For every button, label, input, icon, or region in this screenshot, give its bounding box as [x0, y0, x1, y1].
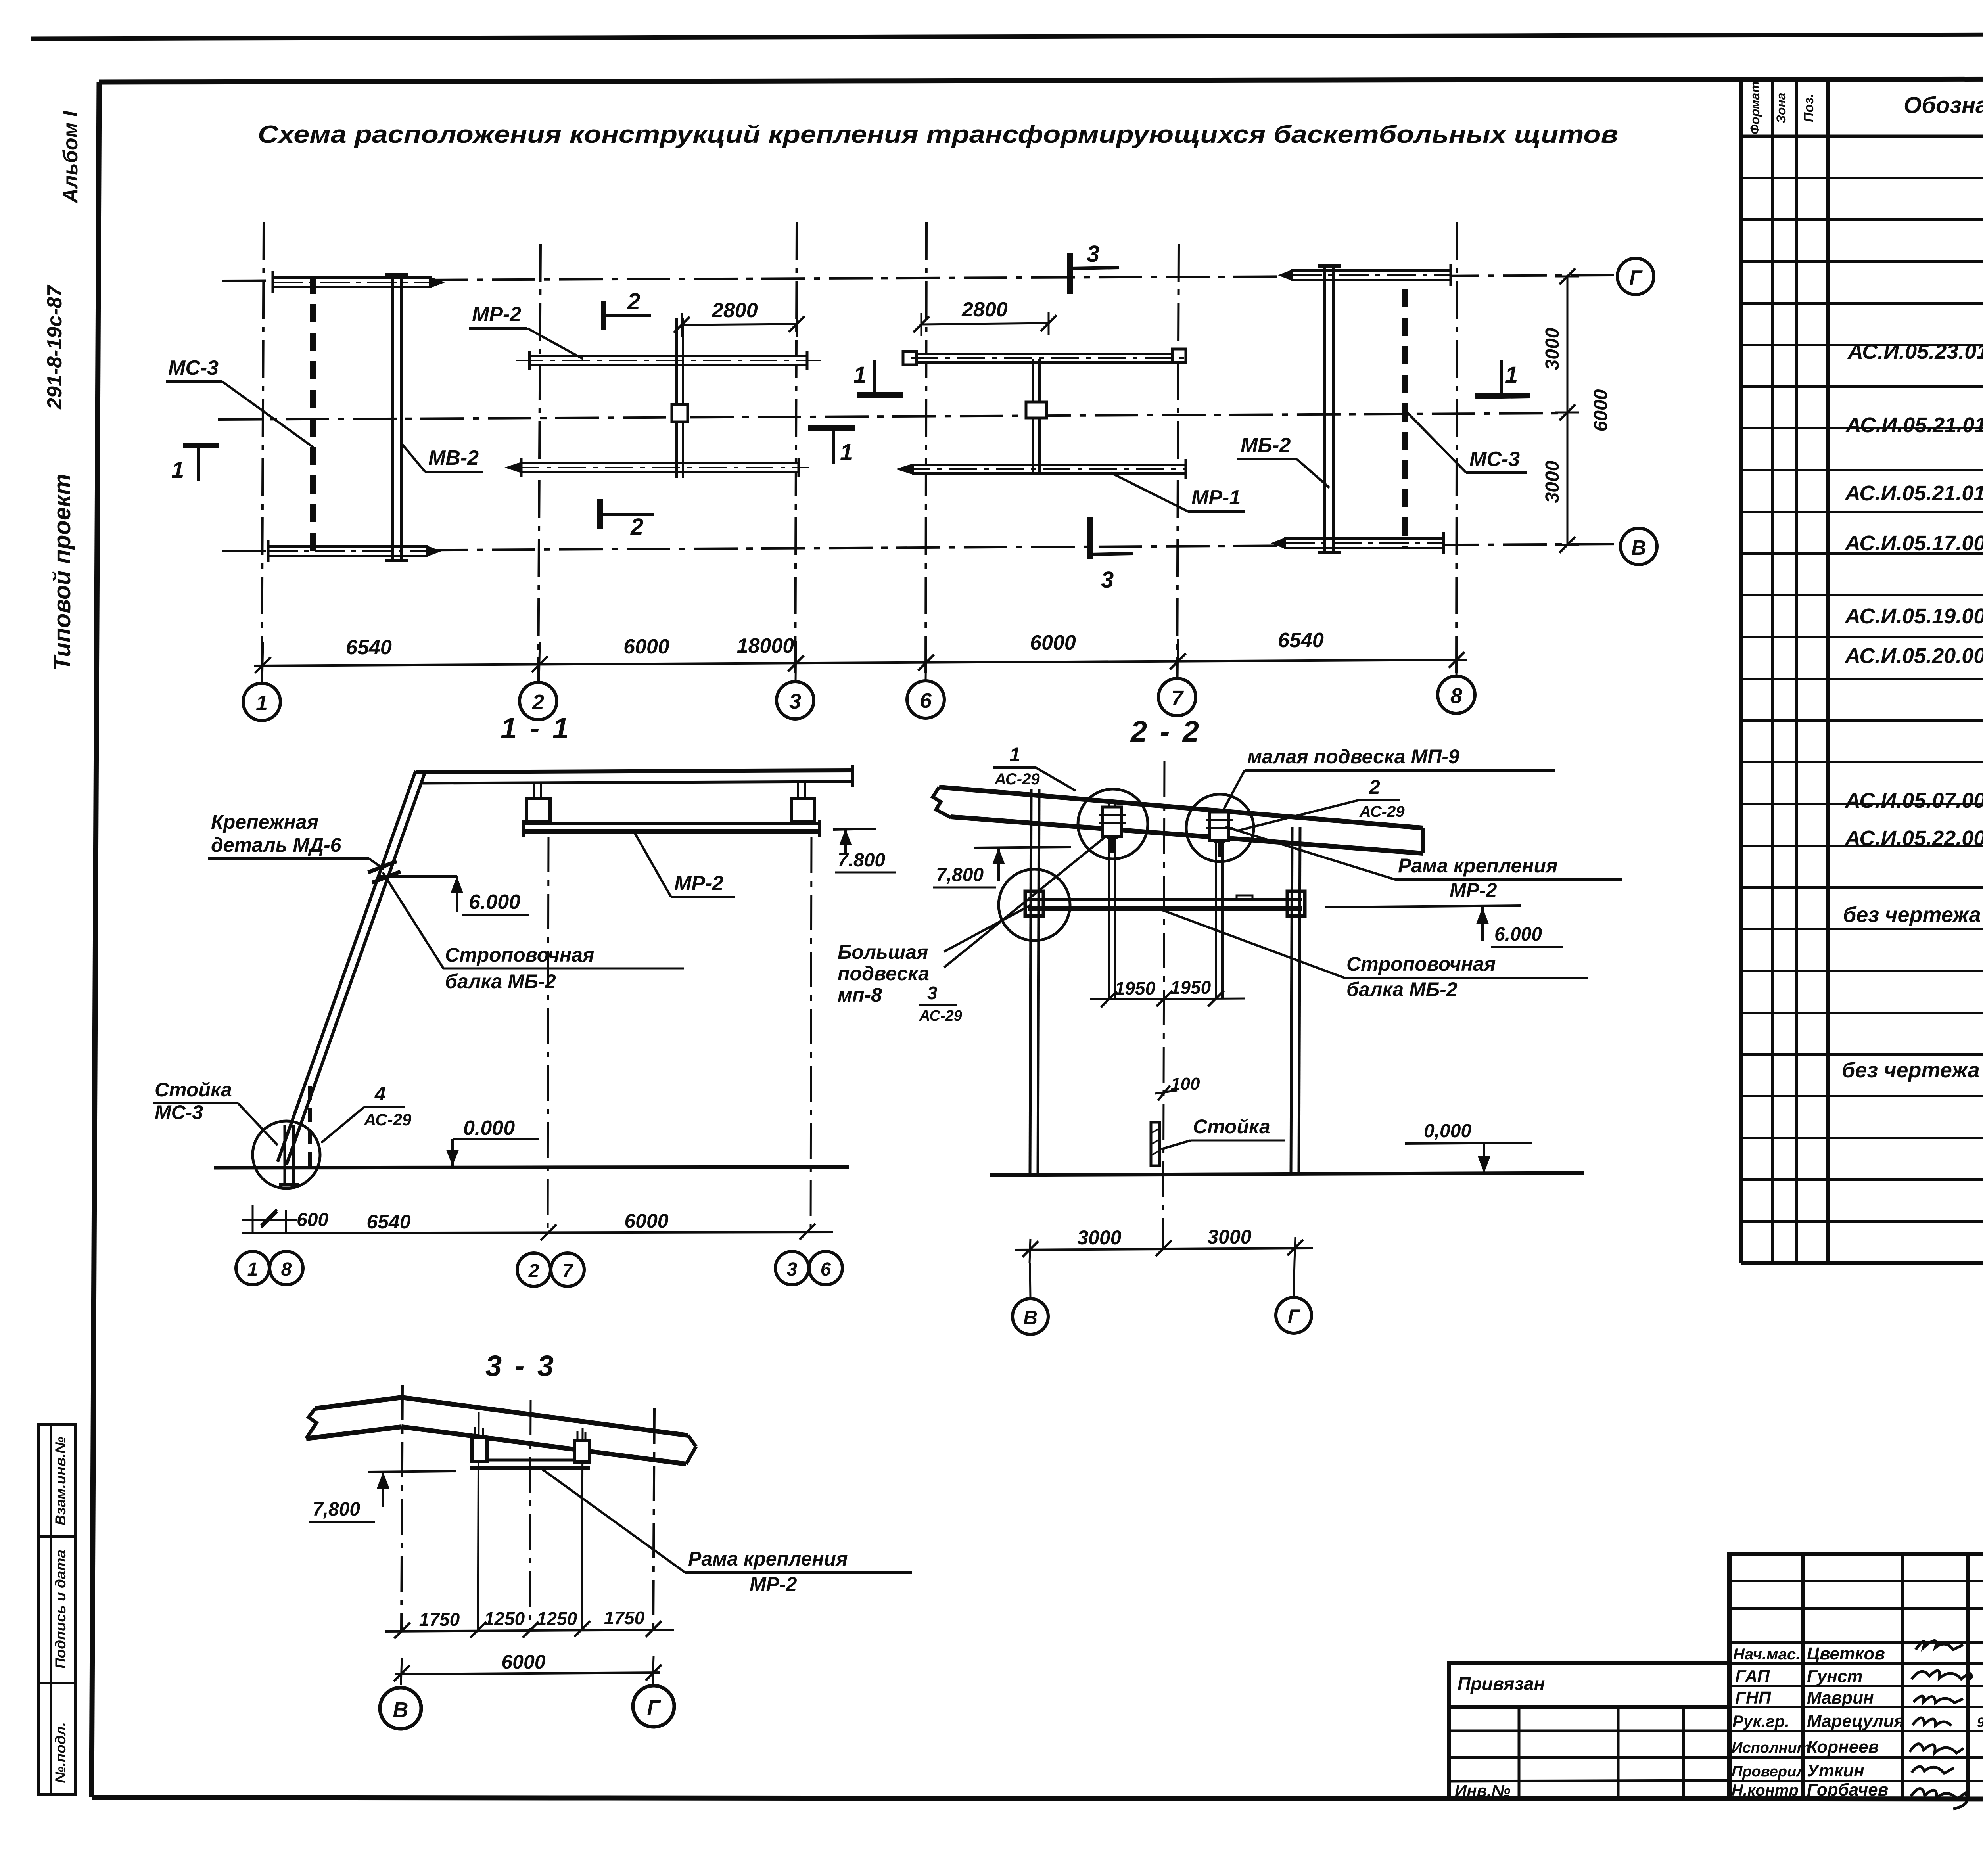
svg-text:Маврин: Маврин: [1807, 1688, 1874, 1707]
section mark 3 upper: [1070, 241, 1119, 294]
left margin stamp box: [39, 1425, 75, 1794]
middle axis dash line section 1-1: [548, 837, 548, 1232]
svg-text:1: 1: [256, 691, 268, 715]
level mark 7.800 section 2-2: [933, 847, 1071, 887]
axis circle 3: [777, 682, 814, 719]
axis line 6: [926, 222, 926, 681]
svg-text:Гунст: Гунст: [1807, 1667, 1863, 1686]
specification table grid: [1741, 79, 1983, 1263]
hanger bolt assembly left: [1099, 807, 1126, 853]
level mark 0.000 section 2-2: [1405, 1121, 1532, 1173]
flag 1/AC-29 top: [993, 744, 1076, 791]
svg-text:Формат: Формат: [1748, 81, 1762, 134]
axis circle 6: [907, 681, 944, 718]
middle dash line section 3-3: [530, 1400, 531, 1631]
svg-text:1950: 1950: [1170, 977, 1211, 998]
svg-text:1: 1: [171, 457, 184, 483]
svg-text:8: 8: [1450, 684, 1462, 708]
svg-text:Схема расположения конструкций: Схема расположения конструкций крепления…: [258, 121, 1618, 148]
section 1-1 dimension line: [242, 1209, 833, 1240]
section 2-2 axis circle G: [1276, 1297, 1312, 1333]
label MR-1: [1110, 473, 1245, 512]
svg-text:В: В: [1023, 1307, 1038, 1329]
axis line G horizontal: [222, 275, 1618, 281]
axis circle 2: [520, 682, 557, 720]
svg-text:7,800: 7,800: [936, 864, 984, 885]
beam bar on axis G left: [273, 271, 445, 293]
svg-text:мп-8: мп-8: [838, 984, 882, 1006]
svg-text:2: 2: [532, 690, 544, 714]
svg-text:3000: 3000: [1542, 328, 1563, 370]
svg-text:1: 1: [1505, 362, 1518, 388]
svg-text:Проверил: Проверил: [1732, 1763, 1806, 1780]
axis circle V: [1621, 528, 1657, 565]
section mark 1 mid-lower: [808, 428, 855, 465]
MR-2 suspended bar: [524, 820, 819, 837]
title block stamp labels: [1732, 1644, 1983, 1799]
svg-text:3000: 3000: [1077, 1226, 1121, 1249]
label MS-3 right: [1407, 412, 1527, 473]
title block main outer: [1729, 1554, 1983, 1799]
svg-text:18000: 18000: [737, 634, 794, 657]
beam bar on axis G right: [1278, 264, 1451, 286]
svg-text:Стойка: Стойка: [155, 1079, 232, 1101]
label fastening detail MD-6: [208, 811, 384, 869]
svg-text:Большая: Большая: [838, 941, 928, 963]
label frame MR-2 section 3-3: [539, 1467, 912, 1595]
svg-text:Взам.инв.№: Взам.инв.№: [52, 1437, 69, 1525]
svg-text:6000: 6000: [1030, 631, 1076, 654]
svg-text:Строповочная: Строповочная: [1346, 953, 1496, 975]
svg-text:1: 1: [840, 439, 853, 465]
section 1-1 axis circles 3 6: [775, 1251, 842, 1285]
leader lines to axis circles section 2-2: [1030, 1261, 1295, 1299]
svg-text:АС.И.05.17.00 СБ: АС.И.05.17.00 СБ: [1844, 531, 1983, 555]
svg-text:В: В: [393, 1698, 408, 1722]
stand small bar section 2-2: [1151, 1122, 1160, 1166]
axis middle horizontal: [218, 413, 1567, 420]
svg-text:МР-2: МР-2: [674, 872, 723, 895]
left hanger tower: [526, 783, 550, 822]
svg-text:балка МБ-2: балка МБ-2: [1346, 978, 1458, 1000]
beam MR-2 middle-left upper: [516, 351, 821, 370]
svg-text:3000: 3000: [1207, 1226, 1251, 1248]
svg-text:6000: 6000: [624, 1210, 668, 1232]
axis line 1: [262, 222, 264, 683]
svg-text:№.подл.: №.подл.: [52, 1722, 69, 1783]
fastening detail MD-6 on strut: [368, 861, 401, 883]
svg-text:МР-2: МР-2: [1450, 879, 1497, 901]
dim 2800 right: [913, 298, 1057, 336]
svg-text:0,000: 0,000: [1424, 1121, 1471, 1142]
label big hanger MP-8: [838, 836, 1107, 1024]
svg-text:9/VII: 9/VII: [1977, 1715, 1983, 1730]
svg-text:Г: Г: [1629, 266, 1643, 289]
svg-text:6.000: 6.000: [469, 891, 520, 914]
svg-text:3: 3: [927, 983, 938, 1003]
flag 2/AC-29: [1237, 776, 1405, 831]
axis line V horizontal: [222, 544, 1621, 551]
hanger line right section 3-3: [582, 1428, 583, 1631]
level mark 7.800 section 3-3: [309, 1471, 456, 1522]
label MR-2 plan: [469, 303, 583, 359]
svg-text:1: 1: [853, 362, 866, 388]
hanger rod left: [1109, 802, 1115, 999]
svg-text:2: 2: [1369, 776, 1380, 798]
outer top edge line: [31, 33, 1983, 39]
table header texts: [1748, 81, 1983, 134]
dim 1950 1950: [1090, 977, 1245, 1007]
svg-text:2: 2: [627, 289, 640, 314]
svg-text:4: 4: [374, 1083, 386, 1105]
svg-text:Цветков: Цветков: [1807, 1644, 1885, 1663]
detail circle at stand base: [253, 1121, 320, 1188]
svg-text:деталь МД-6: деталь МД-6: [211, 834, 342, 856]
section 1-1 axis circles 1 8: [236, 1251, 303, 1285]
svg-text:1250: 1250: [537, 1608, 577, 1629]
flag 4/AC-29: [321, 1083, 412, 1143]
svg-text:2800: 2800: [712, 299, 758, 322]
detail circle hanger left: [1078, 789, 1148, 859]
vertical I-beam strapping left: [385, 274, 408, 561]
svg-text:без чертежа: без чертежа: [1842, 1058, 1980, 1082]
axis line 8: [1456, 222, 1457, 676]
svg-text:1750: 1750: [419, 1609, 460, 1630]
section mark 2 lower: [600, 499, 654, 540]
dim 600 below ground: [242, 1205, 328, 1232]
dashed stand MS-3 right: [1402, 289, 1408, 548]
svg-text:Альбом I: Альбом I: [59, 110, 82, 204]
svg-text:2: 2: [528, 1261, 539, 1282]
svg-text:Рама крепления: Рама крепления: [1398, 855, 1558, 877]
title block stamp grid: [1729, 1554, 1983, 1799]
svg-text:3000: 3000: [1542, 460, 1563, 503]
svg-text:МБ-2: МБ-2: [1241, 434, 1291, 457]
axis line 7: [1177, 244, 1179, 679]
right axis dash line section 1-1: [811, 837, 811, 1232]
MR-2 frame section 3-3: [470, 1427, 590, 1468]
svg-text:АС.И.05.21.01 СБ: АС.И.05.21.01 СБ: [1844, 481, 1983, 505]
level mark 7.800 section 1-1: [833, 829, 896, 872]
svg-text:АС-29: АС-29: [919, 1008, 962, 1024]
signatures scribbles: [1910, 1641, 1971, 1809]
svg-text:Зона: Зона: [1774, 92, 1788, 123]
title block left extension: [1449, 1663, 1729, 1800]
section 3-3 axis circle G: [633, 1686, 674, 1727]
svg-text:2 - 2: 2 - 2: [1130, 715, 1201, 748]
svg-text:Марецулия: Марецулия: [1807, 1711, 1904, 1731]
dashed line at stand: [308, 1086, 312, 1167]
svg-text:Корнеев: Корнеев: [1807, 1737, 1879, 1757]
svg-text:8: 8: [281, 1259, 292, 1280]
svg-text:7: 7: [1171, 686, 1184, 710]
hanger bolt assembly right: [1206, 812, 1233, 857]
svg-text:3 - 3: 3 - 3: [485, 1349, 556, 1382]
svg-text:6540: 6540: [366, 1211, 410, 1233]
level mark 6.000 section 2-2: [1325, 906, 1563, 947]
table body texts: [1842, 155, 1983, 1184]
table row lines: [1741, 178, 1983, 1221]
dim 100: [1155, 1074, 1200, 1100]
svg-text:балка МБ-2: балка МБ-2: [445, 970, 556, 993]
svg-text:Г: Г: [647, 1696, 661, 1720]
vertical I-beam strapping right: [1318, 266, 1341, 553]
svg-text:7: 7: [562, 1261, 574, 1282]
svg-text:Рук.гр.: Рук.гр.: [1732, 1712, 1789, 1730]
svg-text:7.800: 7.800: [838, 850, 885, 871]
svg-text:1950: 1950: [1115, 978, 1156, 998]
beam middle-right lower MR-1: [896, 459, 1186, 479]
axis circle 1: [243, 683, 280, 721]
ground line section 1-1: [214, 1167, 849, 1168]
svg-text:6: 6: [821, 1259, 831, 1280]
svg-text:0.000: 0.000: [463, 1117, 515, 1140]
beam middle-left lower: [504, 458, 809, 477]
svg-text:без чертежа: без чертежа: [1843, 903, 1981, 927]
svg-text:ГАП: ГАП: [1735, 1667, 1770, 1686]
section mark 3 lower: [1090, 517, 1133, 593]
axis circle 7: [1158, 678, 1196, 716]
svg-text:АС.И.05.20.00 СБ: АС.И.05.20.00 СБ: [1844, 644, 1983, 668]
right column section 2-2: [1291, 827, 1300, 1175]
roof slab section 3-3: [306, 1397, 696, 1464]
svg-text:МС-3: МС-3: [155, 1101, 203, 1123]
svg-text:АС-29: АС-29: [364, 1110, 412, 1129]
svg-text:1750: 1750: [604, 1608, 645, 1628]
svg-text:2800: 2800: [961, 298, 1008, 321]
right hanger tower: [791, 783, 814, 822]
svg-text:АС.И.05.19.00 СБ: АС.И.05.19.00 СБ: [1844, 604, 1983, 628]
axis circle G: [1617, 258, 1654, 295]
axis line G section 3-3: [653, 1408, 654, 1631]
roof slab section 2-2: [933, 787, 1423, 853]
label stand section 2-2: [1161, 1115, 1285, 1149]
svg-text:Крепежная: Крепежная: [211, 811, 318, 833]
svg-text:6540: 6540: [1278, 629, 1324, 652]
svg-text:АС.И.05.07.00: АС.И.05.07.00: [1844, 789, 1983, 812]
section 3-3 dimension line 2: [394, 1651, 662, 1685]
svg-text:МС-3: МС-3: [1469, 448, 1520, 471]
svg-text:3: 3: [787, 1259, 798, 1280]
svg-text:1: 1: [1009, 744, 1020, 766]
label small hanger MP-9: [1224, 745, 1555, 810]
svg-text:ГНП: ГНП: [1735, 1688, 1772, 1707]
section mark 1 left: [171, 445, 219, 483]
svg-text:МР-2: МР-2: [472, 303, 521, 326]
beam bar on axis V right: [1271, 532, 1444, 554]
svg-text:МР-2: МР-2: [750, 1573, 797, 1595]
diagonal strut: [278, 771, 424, 1165]
hanger line left section 3-3: [478, 1412, 479, 1631]
section 3-3 axis circle V: [380, 1688, 421, 1729]
svg-text:Стойка: Стойка: [1193, 1115, 1270, 1138]
beam middle-right upper: [903, 349, 1186, 365]
svg-text:АС-29: АС-29: [1359, 803, 1405, 820]
svg-text:МС-3: МС-3: [168, 356, 219, 379]
svg-text:6.000: 6.000: [1494, 924, 1542, 945]
svg-text:1250: 1250: [484, 1608, 525, 1629]
label stand MS-3 section 1-1: [153, 1079, 278, 1145]
ground line section 2-2: [990, 1173, 1584, 1175]
vertical tie right pair: [1026, 359, 1047, 473]
svg-text:АС.И.05.23.01 СБ: АС.И.05.23.01 СБ: [1847, 340, 1983, 364]
svg-text:6000: 6000: [1590, 389, 1611, 431]
svg-text:МВ-2: МВ-2: [428, 446, 479, 469]
label MR-2 section 1-1: [635, 833, 735, 897]
plan bottom dimension line: [254, 629, 1467, 683]
svg-text:АС.И.05.21.01 СБ: АС.И.05.21.01 СБ: [1845, 413, 1983, 437]
detail circle hanger right: [1186, 794, 1254, 862]
svg-text:Типовой проект: Типовой проект: [49, 474, 75, 671]
svg-text:3: 3: [1087, 241, 1099, 267]
svg-text:Обозначение: Обозначение: [1904, 92, 1983, 118]
svg-text:1: 1: [247, 1259, 258, 1280]
ceiling beam: [416, 765, 853, 787]
section 1-1 axis circles 2 7: [517, 1253, 584, 1286]
section 2-2 axis circle V: [1013, 1299, 1048, 1334]
svg-text:3: 3: [1101, 567, 1114, 593]
svg-text:Г: Г: [1288, 1305, 1301, 1328]
svg-text:Н.контр: Н.контр: [1732, 1782, 1799, 1799]
svg-text:6: 6: [920, 689, 932, 713]
svg-text:Горбачев: Горбачев: [1807, 1780, 1888, 1799]
detail circle beam left end: [999, 869, 1070, 941]
svg-text:малая подвеска МП-9: малая подвеска МП-9: [1247, 745, 1459, 768]
svg-text:Исполнит: Исполнит: [1732, 1740, 1810, 1756]
axis line 3: [795, 222, 797, 683]
axis line V section 3-3: [401, 1385, 403, 1631]
label frame MR-2 section 2-2: [1225, 827, 1622, 901]
svg-text:6540: 6540: [346, 636, 392, 659]
svg-text:АС.И.05.22.00: АС.И.05.22.00: [1844, 826, 1983, 850]
section 2-2 dimension line: [1015, 1226, 1313, 1263]
svg-text:6000: 6000: [623, 635, 669, 658]
section mark 1 right: [1475, 360, 1530, 396]
svg-text:600: 600: [297, 1209, 328, 1230]
svg-text:АС-29: АС-29: [994, 770, 1040, 788]
svg-text:В: В: [1631, 537, 1646, 560]
axis line 2: [538, 244, 541, 683]
svg-text:МР-1: МР-1: [1191, 486, 1241, 509]
beam bar on axis V left: [268, 540, 441, 562]
svg-text:1 - 1: 1 - 1: [501, 712, 571, 745]
svg-text:7,800: 7,800: [313, 1499, 360, 1520]
svg-text:100: 100: [1171, 1074, 1200, 1094]
right vertical dim line: [1542, 268, 1611, 553]
svg-text:Нач.мас.: Нач.мас.: [1733, 1646, 1800, 1663]
svg-text:Рама крепления: Рама крепления: [688, 1548, 848, 1570]
svg-text:3: 3: [789, 690, 801, 713]
strapping beam MB-2 section 2-2: [1025, 891, 1305, 916]
section mark 2 upper: [604, 289, 651, 330]
svg-text:Уткин: Уткин: [1807, 1761, 1864, 1780]
svg-text:2: 2: [630, 514, 643, 540]
svg-text:291-8-19c-87: 291-8-19c-87: [43, 285, 66, 410]
section 3-3 dimension line 1: [385, 1608, 674, 1638]
svg-text:Привязан: Привязан: [1458, 1673, 1545, 1694]
svg-text:Инв.№: Инв.№: [1455, 1781, 1511, 1800]
svg-text:Подпись и дата: Подпись и дата: [52, 1550, 69, 1669]
hanger rod right: [1216, 811, 1222, 999]
svg-text:подвеска: подвеска: [838, 962, 929, 985]
svg-text:Поз.: Поз.: [1801, 94, 1816, 122]
level mark 0.000 section 1-1: [446, 1117, 539, 1166]
dim 2800 left: [674, 299, 805, 337]
label MB-2 plan: [1237, 434, 1329, 488]
label strapping beam MB-2: [383, 872, 684, 993]
label strapping beam MB-2 section 2-2: [1162, 910, 1588, 1000]
label MS-3 left: [166, 356, 313, 447]
axis circle 8: [1438, 676, 1475, 713]
stand MS-3 small I-beam: [279, 1125, 299, 1185]
middle axis dash line section 2-2: [1163, 761, 1164, 1249]
left column section 2-2: [1030, 789, 1039, 1175]
svg-text:Строповочная: Строповочная: [445, 944, 594, 966]
label MV-2: [401, 443, 483, 472]
svg-text:6000: 6000: [501, 1651, 545, 1673]
level mark 6.000 section 1-1: [379, 876, 529, 915]
dashed stand MS-3 left: [310, 276, 316, 559]
vertical tie left pair: [672, 318, 688, 478]
section mark 1 mid-upper: [853, 360, 903, 395]
